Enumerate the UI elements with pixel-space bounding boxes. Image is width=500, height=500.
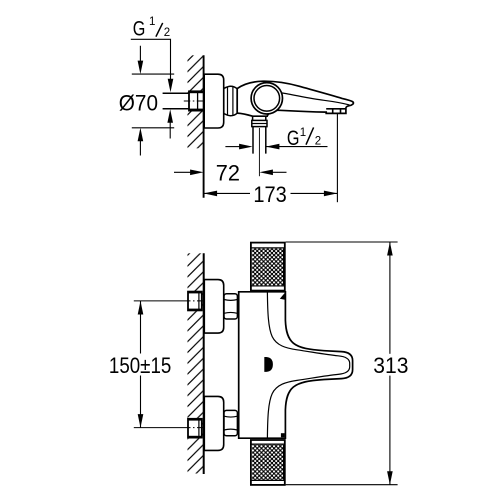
wall union nut (side view) — [189, 91, 204, 110]
upper supply centerline (plan view) — [134, 300, 184, 302]
svg-text:72: 72 — [216, 160, 240, 185]
lower supply union nut (plan view) — [188, 419, 202, 438]
svg-text:G: G — [133, 18, 146, 41]
union nut (side view) — [224, 86, 237, 115]
shower outlet port (side view) — [252, 116, 267, 153]
wall surface line (side view) — [203, 55, 205, 197]
safestop button top (plan view) — [280, 293, 285, 300]
svg-text:1: 1 — [149, 16, 155, 28]
svg-text:2: 2 — [164, 27, 170, 39]
aerator detail lines (side view) — [326, 109, 346, 113]
dim 150±15 — [109, 301, 171, 428]
upper union nut hex (plan view) — [224, 294, 237, 319]
union nut facet lines (side view) — [228, 87, 233, 116]
leader line G1/2 wall supply — [131, 39, 171, 79]
leader arrow G1/2 wall supply — [168, 79, 174, 93]
dim G1/2 outlet leader and arrows — [266, 146, 328, 148]
dim Ø70 extension lines — [132, 74, 174, 128]
svg-text:1: 1 — [300, 127, 306, 139]
supply pipe nipple (side view) — [163, 94, 189, 108]
flow knob (plan view) — [251, 440, 285, 485]
knob outer circle (side view) — [251, 83, 282, 114]
temperature knob (plan view) — [251, 243, 285, 291]
dim label G1/2 shower outlet — [287, 127, 321, 150]
dim 313 extension lines — [286, 242, 398, 485]
supply centerline (side view) — [184, 100, 209, 102]
dim Ø70 arrow lines — [139, 46, 141, 156]
dim 173 — [204, 182, 338, 207]
mixer body and spout (side view) — [237, 81, 353, 116]
outlet centerline (side view) — [258, 128, 260, 176]
spout opening mark (plan view) — [264, 357, 273, 372]
svg-text:150±15: 150±15 — [109, 353, 171, 378]
leader up-arrow G1/2 wall supply (pipe underside) — [169, 122, 171, 139]
wall surface line (plan view) — [203, 253, 205, 474]
lower flange escutcheon (plan view) — [204, 396, 223, 450]
svg-text:Ø70: Ø70 — [119, 90, 158, 115]
dim label G1/2 wall supply — [133, 16, 170, 40]
thermostat body outline with spout bell (plan view) — [239, 292, 353, 438]
svg-text:173: 173 — [253, 182, 286, 207]
wall section hatching (plan view) — [188, 253, 204, 473]
spout shoulder line (side view) — [282, 93, 350, 105]
dim Ø70 arrowheads — [138, 61, 144, 75]
wall section hatching (side view) — [188, 55, 204, 148]
dim 72 — [174, 160, 287, 185]
knob face circle (side view) — [254, 86, 280, 112]
dim 173 extension line at spout tip — [336, 113, 338, 202]
wall flange escutcheon (side view) — [204, 74, 224, 128]
safestop button bottom (plan view) — [281, 433, 285, 437]
lower supply centerline (plan view) — [134, 427, 184, 429]
dim 313 — [373, 242, 408, 485]
lower union nut hex (plan view) — [224, 410, 237, 435]
upper supply union nut (plan view) — [188, 292, 202, 311]
upper flange escutcheon (plan view) — [204, 280, 223, 334]
svg-text:313: 313 — [373, 353, 408, 378]
svg-text:2: 2 — [315, 136, 321, 148]
spout inner contour (plan view) — [267, 292, 349, 438]
